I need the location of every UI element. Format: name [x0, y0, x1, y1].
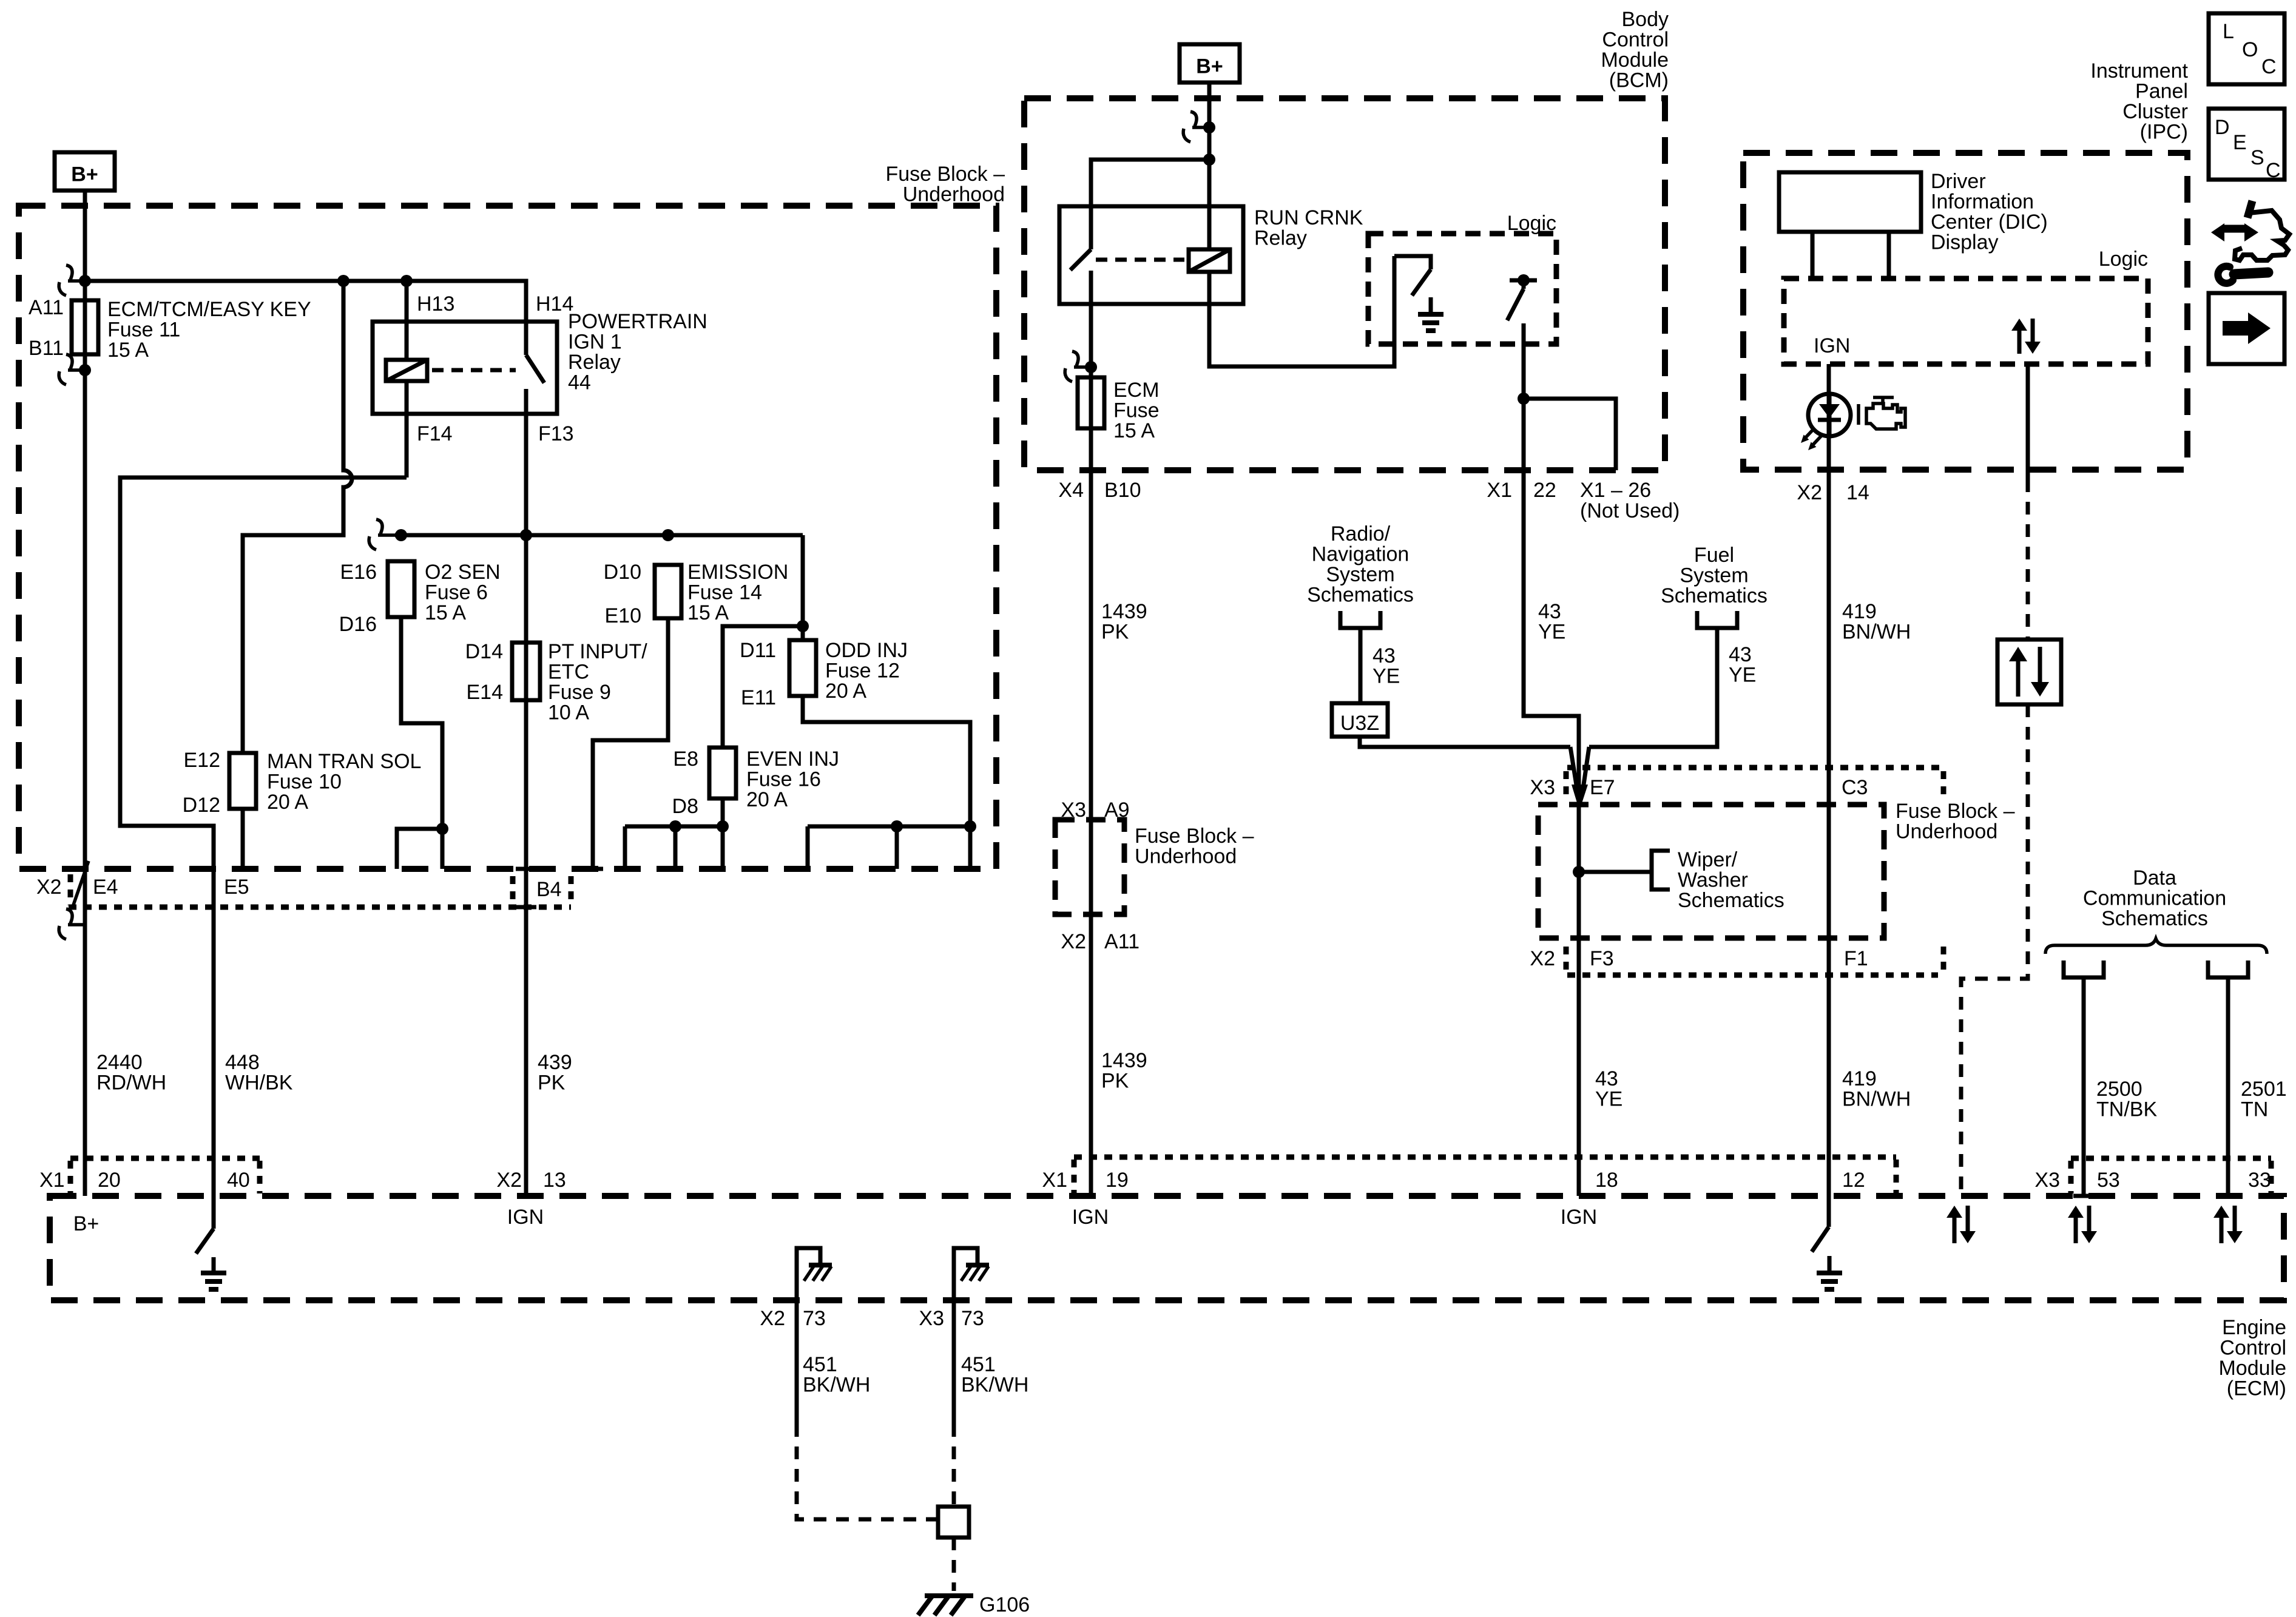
svg-text:Fuse 10: Fuse 10 [267, 771, 342, 794]
svg-text:L: L [2223, 20, 2234, 43]
svg-text:43: 43 [1729, 643, 1752, 666]
svg-text:D11: D11 [740, 639, 776, 662]
splice clip at ignition bus [376, 519, 382, 534]
svg-text:Fuse 14: Fuse 14 [687, 581, 762, 604]
svg-text:10 A: 10 A [548, 701, 589, 724]
wire fuse 14 output to connector edge [593, 618, 668, 869]
svg-text:A9: A9 [1104, 798, 1130, 822]
svg-text:BK/WH: BK/WH [961, 1374, 1028, 1397]
relay K44 POWERTRAIN IGN 1 box [373, 322, 557, 414]
splice S box [938, 1507, 969, 1538]
svg-text:B10: B10 [1104, 479, 1141, 502]
svg-text:EMISSION: EMISSION [687, 561, 788, 584]
icon box LOC [2209, 13, 2284, 84]
svg-text:Relay: Relay [568, 351, 621, 374]
RUN CRNK relay coil [1189, 249, 1230, 272]
driver information center display box [1779, 172, 1921, 232]
svg-text:ECM/TCM/EASY KEY: ECM/TCM/EASY KEY [107, 298, 311, 321]
junction to relay switch branch [1203, 154, 1215, 166]
svg-text:15 A: 15 A [1113, 419, 1155, 442]
svg-text:F1: F1 [1844, 947, 1868, 970]
svg-text:33: 33 [2248, 1169, 2271, 1192]
svg-text:73: 73 [803, 1307, 826, 1330]
svg-text:Information: Information [1931, 191, 2034, 214]
splice clip at fuse 11 bottom (B11) [66, 354, 72, 369]
svg-text:X2: X2 [760, 1307, 785, 1330]
svg-text:PK: PK [1101, 1070, 1129, 1093]
svg-text:X3: X3 [1530, 776, 1555, 799]
curly brace data communication [2045, 939, 2267, 954]
svg-text:451: 451 [803, 1353, 837, 1376]
svg-text:Schematics: Schematics [1661, 584, 1768, 607]
svg-text:E16: E16 [340, 561, 377, 584]
icon vehicle with double arrow [2222, 225, 2246, 233]
svg-text:15 A: 15 A [687, 601, 729, 624]
updown arrows inside ECM [1953, 1215, 1957, 1243]
wire IPC logic data to arrow box (dashed) [2026, 364, 2030, 479]
ground hook at ECM pin X2-73 [797, 1248, 820, 1300]
relay 44 switch H14-F13 [526, 322, 544, 414]
wire fuse 12 output E11 to connector edge [803, 696, 970, 869]
svg-text:IGN 1: IGN 1 [568, 331, 622, 354]
svg-text:Schematics: Schematics [2101, 907, 2208, 930]
wire relay switch to ECM fuse and pin B10 (1439 PK) [1089, 304, 1093, 1196]
svg-text:X3: X3 [919, 1307, 944, 1330]
wire fuse 10 output D12 to connector edge [241, 809, 245, 869]
off-page bracket wiper/washer [1652, 851, 1670, 890]
svg-text:Center (DIC): Center (DIC) [1931, 211, 2048, 234]
wire branch to relay switch pin [1091, 160, 1209, 206]
relay 44 link dashes [432, 368, 516, 373]
svg-text:MAN TRAN SOL: MAN TRAN SOL [267, 750, 421, 773]
B+ terminal (left) [55, 152, 115, 191]
wire logic output to pin 22 then E7 (43 YE) [1524, 323, 1579, 1196]
LED light arrows [1805, 428, 1822, 446]
svg-text:Fuel: Fuel [1694, 544, 1734, 567]
svg-text:Radio/: Radio/ [1331, 522, 1391, 545]
svg-text:Control: Control [2220, 1337, 2286, 1360]
svg-text:20 A: 20 A [746, 788, 788, 811]
svg-text:18: 18 [1595, 1169, 1618, 1192]
svg-text:Module: Module [2218, 1357, 2286, 1380]
svg-text:Panel: Panel [2135, 80, 2188, 103]
connector X1 row (pins 19 18 12) [1074, 1155, 1896, 1160]
svg-text:A11: A11 [29, 296, 64, 319]
svg-text:E4: E4 [93, 876, 118, 899]
svg-text:E12: E12 [184, 749, 221, 772]
junction node on top bus [337, 275, 349, 287]
junction node at relay H13 [400, 275, 413, 287]
svg-text:Logic: Logic [2099, 248, 2148, 271]
relay 44 coil [386, 360, 427, 381]
wire 43 YE from fuel system to E7 merge [1589, 628, 1717, 747]
connector X3 row (E7 C3) [1567, 765, 1945, 771]
svg-text:WH/BK: WH/BK [225, 1072, 293, 1095]
svg-text:73: 73 [961, 1307, 984, 1330]
splice clip above BCM ECM fuse [1072, 351, 1078, 366]
fuse F14 EMISSION 15A [655, 565, 681, 618]
svg-text:U3Z: U3Z [1340, 712, 1379, 735]
svg-text:E5: E5 [224, 876, 249, 899]
DIC display legs [1812, 232, 1889, 279]
switch to ground at ECM pin 40 [196, 1196, 214, 1254]
svg-text:Schematics: Schematics [1678, 889, 1784, 912]
logic driver element with node [1507, 280, 1537, 320]
svg-text:Schematics: Schematics [1307, 584, 1414, 607]
svg-text:X1: X1 [39, 1169, 65, 1192]
wire IGN output from IPC logic to ECM pin 12 (419 BN/WH) [1827, 364, 1831, 1227]
svg-text:D8: D8 [672, 795, 698, 818]
icon wrench [2234, 272, 2268, 274]
relay RUN CRNK box [1059, 206, 1243, 304]
svg-text:40: 40 [227, 1169, 250, 1192]
svg-text:Fuse Block –: Fuse Block – [885, 163, 1005, 186]
svg-text:E8: E8 [673, 748, 698, 771]
B+ terminal (BCM) [1180, 44, 1240, 83]
svg-text:B11: B11 [29, 337, 64, 360]
svg-text:Control: Control [1602, 29, 1669, 52]
merge arrow into pin E7 [1570, 747, 1589, 789]
svg-text:X1: X1 [1042, 1169, 1067, 1192]
wire branch to wiper/washer schematics [1579, 870, 1652, 874]
svg-text:D16: D16 [339, 613, 377, 636]
svg-text:E11: E11 [741, 686, 776, 709]
engine control module (ECM) dashed outline [50, 1196, 2284, 1300]
svg-text:C3: C3 [1842, 776, 1868, 799]
svg-text:BN/WH: BN/WH [1842, 1088, 1911, 1111]
svg-text:Underhood: Underhood [1896, 820, 1997, 843]
relay 44 coil pin wire H13-F14 [405, 281, 409, 478]
svg-text:X4: X4 [1058, 479, 1084, 502]
svg-text:Display: Display [1931, 231, 1998, 254]
svg-text:439: 439 [538, 1051, 572, 1074]
wire B+ feed down from terminal to ECM pin 20 (2440 RD/WH) [83, 191, 87, 1196]
splice clip at fuse 11 top (A11) [66, 265, 72, 280]
svg-text:20 A: 20 A [825, 680, 866, 703]
svg-text:E10: E10 [605, 604, 642, 627]
fuse F16 EVEN INJ 20A [709, 748, 736, 798]
wire from top bus down with hop over F14 wire, to MAN TRAN SOL feed [243, 281, 352, 753]
svg-text:Fuse 16: Fuse 16 [746, 768, 821, 791]
svg-text:O2 SEN: O2 SEN [425, 561, 501, 584]
dashed pointer from arrow box to ECM [1961, 704, 2028, 1196]
svg-text:TN: TN [2241, 1098, 2268, 1121]
svg-text:(ECM): (ECM) [2227, 1377, 2286, 1400]
IPC Logic dashed box [1784, 279, 2148, 364]
updown arrow box (serial data) [1997, 640, 2061, 704]
svg-text:D: D [2215, 116, 2230, 139]
svg-text:IGN: IGN [1814, 334, 1850, 357]
svg-text:448: 448 [225, 1051, 260, 1074]
svg-text:POWERTRAIN: POWERTRAIN [568, 310, 707, 333]
svg-text:Fuse Block –: Fuse Block – [1135, 825, 1254, 848]
svg-text:EVEN INJ: EVEN INJ [746, 748, 839, 771]
svg-text:E7: E7 [1590, 776, 1615, 799]
svg-text:F13: F13 [538, 422, 574, 445]
wire branch to EVEN INJ fuse [723, 626, 803, 748]
wire fuse 6 output to connector edge pins [397, 617, 442, 869]
RUN CRNK relay switch [1070, 206, 1091, 304]
svg-text:Driver: Driver [1931, 170, 1986, 193]
svg-text:Fuse 9: Fuse 9 [548, 681, 611, 704]
svg-text:D10: D10 [604, 561, 641, 584]
svg-text:Body: Body [1622, 8, 1669, 31]
check engine icon [1857, 404, 1860, 425]
svg-text:X1 – 26: X1 – 26 [1580, 479, 1651, 502]
terminal tick at E10 drop [582, 867, 603, 871]
wire relay coil to BCM logic [1209, 256, 1394, 366]
terminal ticks at B4 crossing [516, 869, 536, 907]
wire 2501 TN to ECM pin 33 [2226, 977, 2230, 1196]
svg-text:X3: X3 [1061, 798, 1086, 822]
svg-text:20: 20 [98, 1169, 121, 1192]
svg-text:Instrument: Instrument [2090, 59, 2188, 83]
off-page bracket data 2501 [2208, 960, 2248, 977]
fuse F6 O2 SEN 15A [388, 561, 414, 617]
svg-text:19: 19 [1106, 1169, 1129, 1192]
svg-text:(BCM): (BCM) [1609, 69, 1669, 92]
svg-text:Fuse 12: Fuse 12 [825, 660, 900, 683]
svg-text:ODD INJ: ODD INJ [825, 639, 908, 662]
svg-text:YE: YE [1373, 665, 1400, 688]
svg-text:C: C [2261, 55, 2277, 78]
svg-text:Navigation: Navigation [1312, 543, 1410, 566]
ground hook at ECM pin X3-73 [954, 1248, 977, 1300]
svg-text:12: 12 [1842, 1169, 1865, 1192]
svg-text:G106: G106 [979, 1593, 1030, 1616]
pass-through slash at pin E4 [72, 861, 89, 908]
svg-text:1439: 1439 [1101, 1049, 1147, 1072]
wiper/washer branch junction [1573, 866, 1585, 878]
RUN CRNK relay link dashes [1096, 258, 1184, 262]
fuse ECM 15A in BCM [1078, 377, 1104, 428]
svg-text:RUN CRNK: RUN CRNK [1254, 206, 1363, 229]
svg-text:Engine: Engine [2222, 1316, 2286, 1339]
updown arrows in IPC logic [2017, 328, 2022, 354]
svg-text:PT INPUT/: PT INPUT/ [548, 640, 647, 663]
svg-text:D14: D14 [465, 640, 503, 663]
svg-text:43: 43 [1538, 600, 1561, 623]
svg-text:Wiper/: Wiper/ [1678, 848, 1738, 871]
svg-text:451: 451 [961, 1353, 996, 1376]
svg-text:YE: YE [1595, 1088, 1622, 1111]
svg-text:System: System [1680, 564, 1748, 587]
indicator LED circle [1808, 394, 1851, 436]
wire splice to ground G106 [952, 1538, 956, 1591]
svg-text:2500: 2500 [2096, 1078, 2142, 1101]
svg-text:F3: F3 [1590, 947, 1614, 970]
svg-text:B+: B+ [71, 163, 98, 186]
svg-text:X3: X3 [2034, 1169, 2060, 1192]
wire F14 to fuse block pin E5 then ECM pin 40 (448 WH/BK) [120, 478, 407, 1196]
svg-text:IGN: IGN [1561, 1206, 1597, 1229]
ground in BCM logic [1429, 297, 1433, 314]
svg-text:Underhood: Underhood [1135, 845, 1237, 868]
svg-text:S: S [2250, 146, 2264, 169]
svg-text:YE: YE [1729, 664, 1756, 687]
svg-text:BK/WH: BK/WH [803, 1374, 870, 1397]
svg-text:Communication: Communication [2083, 887, 2226, 910]
svg-text:E14: E14 [467, 681, 504, 704]
svg-text:44: 44 [568, 371, 591, 394]
svg-text:Fuse 6: Fuse 6 [425, 581, 488, 604]
LED cathode bar [1818, 418, 1841, 422]
svg-text:Cluster: Cluster [2122, 100, 2188, 123]
svg-text:53: 53 [2097, 1169, 2120, 1192]
off-page bracket radio/nav [1340, 611, 1380, 628]
svg-text:X2: X2 [1061, 930, 1086, 953]
wire F13 down through fuse 9 to pin B4 and ECM pin 13 (439 PK) [524, 414, 528, 1196]
svg-text:Data: Data [2133, 866, 2176, 890]
svg-text:14: 14 [1846, 481, 1869, 504]
svg-text:B+: B+ [73, 1212, 100, 1235]
svg-text:Module: Module [1601, 49, 1669, 72]
wire fuse 16 output D8 to connector edge [721, 798, 725, 869]
splice pack U3Z box [1332, 703, 1388, 737]
wire stub X1-26 not used [1524, 399, 1616, 470]
svg-text:Relay: Relay [1254, 227, 1307, 250]
svg-text:20 A: 20 A [267, 791, 308, 814]
terminal bus B inside fuse block bottom [808, 826, 970, 869]
svg-text:43: 43 [1373, 644, 1396, 667]
fuse block - underhood pass-through box (right) [1538, 805, 1884, 938]
svg-text:2501: 2501 [2241, 1078, 2287, 1101]
fuse F9 PT INPUT/ETC 10A on F13 wire [512, 643, 540, 700]
switch to ground at ECM pin 12 [1812, 1227, 1829, 1252]
wire B+ into BCM to RUN CRNK relay coil [1207, 83, 1212, 249]
svg-text:O: O [2242, 38, 2258, 61]
svg-text:Fuse 11: Fuse 11 [107, 319, 180, 342]
svg-text:419: 419 [1842, 600, 1877, 623]
svg-text:TN/BK: TN/BK [2096, 1098, 2157, 1121]
svg-text:419: 419 [1842, 1067, 1877, 1090]
svg-text:X2: X2 [36, 876, 62, 899]
connector X3 row (pins 53 33) [2071, 1156, 2271, 1161]
svg-text:PK: PK [1101, 621, 1129, 644]
svg-text:Fuse: Fuse [1113, 399, 1160, 422]
off-page bracket data 2500 [2064, 960, 2104, 977]
wire 451 BK/WH from pin X3-73 [952, 1300, 956, 1424]
wire 451 BK/WH from pin X2-73 [795, 1300, 799, 1424]
svg-text:IGN: IGN [507, 1206, 544, 1229]
svg-text:X2: X2 [1530, 947, 1555, 970]
svg-text:X2: X2 [1797, 481, 1822, 504]
svg-text:1439: 1439 [1101, 600, 1147, 623]
svg-text:2440: 2440 [96, 1051, 143, 1074]
connector X2 row of fuse block (E4 E5 B4) [69, 905, 571, 910]
svg-text:F14: F14 [417, 422, 453, 445]
svg-text:A11: A11 [1104, 930, 1140, 953]
svg-text:IGN: IGN [1072, 1206, 1109, 1229]
fuse F11 ECM/TCM/EASY KEY 15A [72, 300, 98, 354]
svg-text:22: 22 [1533, 479, 1556, 502]
off-page bracket fuel system [1697, 611, 1737, 628]
svg-text:C: C [2266, 159, 2281, 182]
svg-text:43: 43 [1595, 1067, 1618, 1090]
svg-text:15 A: 15 A [107, 339, 149, 362]
svg-text:Washer: Washer [1678, 869, 1748, 892]
svg-text:E: E [2233, 131, 2247, 154]
splice clip at BCM B+ entry [1190, 112, 1197, 126]
BCM Logic dashed box [1368, 234, 1556, 344]
wire ignition bus corner down to ODD INJ / EVEN INJ fuses [801, 535, 805, 640]
wire 2500 TN/BK to ECM pin 53 [2073, 977, 2094, 1196]
instrument panel cluster (IPC) dashed outline [1743, 153, 2187, 470]
ground G106 chassis symbol [925, 1593, 973, 1598]
icon box right arrow [2209, 293, 2284, 364]
svg-text:ETC: ETC [548, 661, 589, 684]
svg-text:13: 13 [543, 1169, 566, 1192]
wire from U3Z to E7 merge [1360, 737, 1570, 747]
ignition feed bus inside fuse block [395, 533, 803, 538]
logic switch to ground element [1394, 256, 1431, 295]
svg-text:B4: B4 [536, 878, 562, 901]
svg-text:Underhood: Underhood [903, 183, 1005, 206]
svg-text:H13: H13 [417, 292, 454, 316]
svg-text:X1: X1 [1487, 479, 1512, 502]
connector X2 row (F3 F1) [1567, 973, 1938, 978]
wire 43 YE from radio/nav to splice U3Z [1359, 628, 1363, 703]
svg-text:X2: X2 [496, 1169, 522, 1192]
fuse F10 MAN TRAN SOL 20A [229, 753, 256, 809]
fuse block - underhood (left) dashed outline [19, 206, 996, 869]
terminal bus A inside fuse block bottom [625, 826, 723, 869]
svg-text:System: System [1326, 563, 1394, 586]
svg-text:BN/WH: BN/WH [1842, 621, 1911, 644]
svg-text:PK: PK [538, 1072, 566, 1095]
svg-text:RD/WH: RD/WH [96, 1072, 166, 1095]
connector X1 row (pins 20 40) [70, 1156, 260, 1161]
svg-text:(IPC): (IPC) [2140, 121, 2188, 144]
wire top bus from fuse 11 to relay pin H14 [85, 281, 526, 322]
icon box DESC [2209, 109, 2284, 180]
fuse F12 ODD INJ 20A [789, 640, 816, 696]
svg-text:Fuse Block –: Fuse Block – [1896, 800, 2015, 823]
fuse block pass-through box for A9/A11 [1055, 820, 1124, 914]
svg-text:YE: YE [1538, 621, 1565, 644]
body control module (BCM) dashed outline [1024, 98, 1665, 470]
svg-text:15 A: 15 A [425, 601, 466, 624]
svg-text:D12: D12 [183, 794, 220, 817]
clip symbol below pin E4 [66, 909, 72, 923]
svg-text:(Not Used): (Not Used) [1580, 499, 1680, 522]
svg-text:Logic: Logic [1507, 212, 1556, 235]
svg-text:B+: B+ [1196, 55, 1223, 78]
svg-text:ECM: ECM [1113, 379, 1160, 402]
